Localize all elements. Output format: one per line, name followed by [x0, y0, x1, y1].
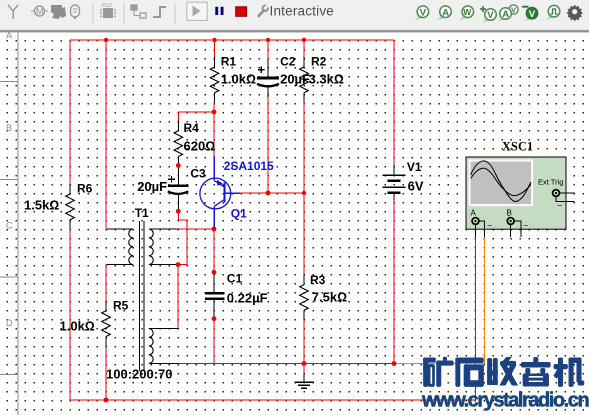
- toolbar probe AV: [498, 5, 519, 22]
- svg-text:3.3kΩ: 3.3kΩ: [309, 71, 344, 86]
- wire battery bottom to ground rail: [393, 200, 395, 364]
- toolbar play button: [187, 2, 207, 20]
- junction ground rail / battery bottom: [392, 361, 397, 366]
- wire C1 bottom to ground rail: [213, 319, 215, 364]
- svg-text:C: C: [6, 221, 13, 231]
- watermark logo char shi: [456, 358, 484, 387]
- junction bottom rail / R5: [104, 398, 109, 403]
- svg-text:A: A: [471, 208, 477, 217]
- resistor R3: [300, 273, 347, 321]
- svg-text:T1: T1: [135, 206, 149, 220]
- wire left rail upper (to R6): [69, 40, 71, 184]
- toolbar icon motor: [31, 6, 48, 17]
- wire top rail: [70, 39, 394, 41]
- toolbar probe -V: [522, 6, 538, 21]
- junction C1 bottom pin: [212, 316, 217, 321]
- svg-text:Ext Trig: Ext Trig: [538, 178, 563, 187]
- junction secondary windings / C3 branch: [176, 262, 181, 267]
- wire base rail to R3 top: [303, 193, 305, 274]
- wire R3 bottom to ground rail: [303, 321, 305, 364]
- wire ground rail: [178, 363, 394, 365]
- svg-text:V: V: [487, 10, 494, 21]
- junction base rail / R2 bottom / R3 top: [302, 191, 306, 195]
- toolbar icon antenna: [8, 5, 18, 19]
- wire base rail Q1 to R2/R3: [240, 192, 304, 194]
- svg-text:B: B: [507, 208, 512, 217]
- svg-text:R4: R4: [184, 121, 200, 135]
- wire bottom rail: [70, 399, 476, 401]
- svg-text:–: –: [524, 221, 529, 230]
- svg-text:20µF: 20µF: [137, 179, 167, 194]
- junction top rail / primary branch: [104, 38, 108, 42]
- svg-text:C3: C3: [190, 166, 206, 180]
- toolbar icon PLD chip: [100, 3, 116, 18]
- svg-text:C1: C1: [227, 271, 243, 285]
- wire scope A plus red: [70, 237, 476, 400]
- wire R5 bottom to bottom rail: [105, 347, 107, 400]
- svg-text:R5: R5: [113, 298, 129, 312]
- wire secondary top lead to emitter junction: [178, 228, 214, 230]
- wire x=106 top to transformer primary: [105, 40, 107, 229]
- svg-text:B: B: [6, 123, 12, 133]
- svg-text:R1: R1: [221, 54, 237, 68]
- toolbar probe V: [415, 6, 429, 20]
- junction ground rail / R3 bottom / ground: [302, 361, 307, 366]
- toolbar icon misc block: [51, 5, 66, 19]
- toolbar icon valve: [71, 5, 80, 19]
- toolbar separator 2: [123, 3, 125, 24]
- wire secondary series link: [177, 265, 179, 329]
- watermark url: [421, 390, 588, 412]
- svg-text:R6: R6: [77, 181, 93, 195]
- svg-text:R2: R2: [311, 54, 327, 68]
- toolbar gear icon: [566, 5, 583, 22]
- wire battery top: [393, 40, 395, 165]
- wire transformer primary bottom to R5: [105, 265, 107, 301]
- ground: [295, 374, 314, 389]
- svg-text:W: W: [463, 7, 472, 17]
- wire R2 bottom to base rail: [303, 103, 305, 193]
- capacitor C2: [257, 54, 310, 97]
- resistor R4: [174, 121, 215, 166]
- junction C3 bottom: [176, 209, 181, 214]
- svg-text:XSC1: XSC1: [502, 140, 533, 154]
- svg-text:–: –: [488, 221, 493, 230]
- toolbar probe pulse: [546, 5, 560, 19]
- svg-text:1.5kΩ: 1.5kΩ: [24, 198, 59, 213]
- svg-text:–: –: [558, 201, 563, 210]
- junction R4 bottom / C3 top: [176, 163, 181, 168]
- svg-text:2SA1015: 2SA1015: [224, 159, 274, 173]
- svg-text:100:200:70: 100:200:70: [106, 366, 173, 381]
- junction base rail / C2 bottom: [266, 191, 271, 196]
- wire C2 top: [267, 40, 269, 59]
- svg-text:7.5kΩ: 7.5kΩ: [312, 290, 347, 305]
- junction top rail / C2 top: [266, 38, 270, 42]
- toolbar pause button: [215, 7, 223, 15]
- svg-text:V: V: [420, 7, 427, 18]
- resistor R1: [210, 54, 256, 102]
- svg-text:Interactive: Interactive: [270, 4, 334, 19]
- svg-text:1.0kΩ: 1.0kΩ: [60, 319, 95, 334]
- wire R1 top: [214, 40, 216, 57]
- svg-text:V1: V1: [407, 160, 422, 174]
- resistor R2: [300, 54, 344, 102]
- wire left rail lower (R6 to bottom): [69, 229, 71, 400]
- capacitor C3: [137, 166, 206, 212]
- toolbar separator 3: [174, 3, 176, 24]
- transistor Q1: [200, 156, 274, 229]
- svg-text:Q1: Q1: [231, 207, 247, 221]
- toolbar stop button: [236, 7, 247, 16]
- svg-text:A: A: [6, 31, 12, 41]
- watermark logo char kuang: [424, 357, 454, 386]
- svg-text:C2: C2: [280, 54, 296, 68]
- toolbar probe W: [459, 6, 473, 20]
- toolbar separator 1: [92, 3, 94, 24]
- sheet border ruler: [0, 31, 18, 415]
- svg-text:6V: 6V: [408, 179, 424, 194]
- wire R2 top: [303, 40, 305, 57]
- svg-text:R3: R3: [310, 273, 326, 287]
- junction emitter / secondary top / C1: [212, 227, 217, 232]
- toolbar probe A: [437, 6, 451, 20]
- oscilloscope XSC1: [466, 140, 575, 238]
- watermark logo char yin: [521, 357, 550, 386]
- capacitor C1: [205, 271, 268, 318]
- wire node to Q1 emitter: [213, 112, 215, 156]
- svg-text:V: V: [529, 9, 536, 20]
- watermark logo char ji: [554, 358, 584, 387]
- toolbar icon bus branch: [153, 7, 166, 17]
- wire scope A minus orange: [396, 237, 485, 364]
- wire C2 bottom to base rail: [267, 98, 269, 193]
- wire ground stem red part: [303, 364, 305, 374]
- wire C3 bottom jog to secondary node: [178, 211, 187, 264]
- svg-text:1.0kΩ: 1.0kΩ: [221, 71, 256, 86]
- svg-text:D: D: [6, 318, 13, 328]
- svg-text:620Ω: 620Ω: [184, 139, 216, 154]
- wire node to R4 top: [178, 112, 214, 121]
- svg-text:M: M: [36, 7, 44, 17]
- toolbar wrench icon: [259, 5, 269, 16]
- battery V1: [382, 160, 424, 200]
- resistor R6: [24, 181, 93, 229]
- transformer T1: [106, 206, 178, 382]
- svg-text:A: A: [442, 7, 449, 18]
- toolbar icon hierarchy: [131, 5, 146, 18]
- svg-text:0.22µF: 0.22µF: [227, 291, 268, 306]
- junction top rail / R1 top: [212, 38, 216, 42]
- resistor R5: [60, 298, 129, 347]
- junction C1 top pin: [212, 270, 217, 275]
- toolbar background: [0, 0, 589, 33]
- svg-text:www.crystalradio.cn: www.crystalradio.cn: [421, 390, 588, 412]
- junction R1 bottom / R4 / emitter: [212, 110, 217, 115]
- svg-text:A: A: [502, 9, 509, 20]
- junction top rail / R2 top: [302, 38, 306, 42]
- toolbar probe +V: [480, 6, 496, 23]
- watermark logo char shou: [488, 357, 518, 385]
- wire R1 bottom to node: [213, 103, 215, 112]
- svg-text:20µF: 20µF: [280, 71, 310, 86]
- wire emitter junction down to C1: [213, 229, 215, 272]
